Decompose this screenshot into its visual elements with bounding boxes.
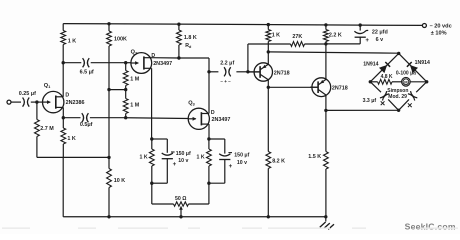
wire rail to R2 100K bbox=[108, 24, 110, 31]
minus mark C4 bbox=[171, 151, 175, 153]
junction ground rail end bbox=[324, 215, 327, 218]
wire midpoint to 1M lower bbox=[125, 90, 127, 99]
junction rail/2.2K bbox=[324, 23, 327, 26]
svg-text:100K: 100K bbox=[114, 37, 127, 43]
svg-text:150 μf: 150 μf bbox=[176, 151, 191, 157]
capacitor C6 150uf bbox=[219, 154, 230, 156]
wire node to 1K bbox=[151, 139, 153, 149]
node Q5 emitter bbox=[324, 109, 327, 112]
svg-text:3.3 μf: 3.3 μf bbox=[363, 98, 377, 104]
wire to Q3 gate (crosses Q2 source) bbox=[126, 117, 189, 120]
wire down to 50ohm line bbox=[208, 183, 210, 204]
wire down to 50ohm line bbox=[151, 183, 153, 204]
svg-text:1 K: 1 K bbox=[68, 39, 76, 45]
node Q1 source junction bbox=[62, 116, 65, 119]
svg-text:1 M: 1 M bbox=[130, 103, 139, 109]
wire 8.2K to ground rail bbox=[267, 169, 269, 217]
x mark bottom-left arm bbox=[381, 101, 385, 105]
wire C4 bottom join bbox=[152, 182, 168, 184]
wire C5 to base node bbox=[236, 71, 248, 73]
wire emitter node to 1.5K bbox=[325, 110, 327, 151]
wire gate node down to R 2.7M bbox=[36, 102, 38, 119]
svg-text:27K: 27K bbox=[292, 34, 302, 40]
resistor 1K (Q4 collector) bbox=[266, 30, 271, 42]
svg-text:SeekIC.com: SeekIC.com bbox=[405, 222, 456, 232]
node 100K to 1M divider link bbox=[107, 88, 110, 91]
wire 27K to 2.2K node bbox=[305, 43, 326, 45]
wire emitter node down to 8.2K bbox=[267, 87, 269, 151]
wire down to C4 bbox=[166, 139, 168, 153]
svg-text:1.5 K: 1.5 K bbox=[308, 154, 321, 160]
wire 1M lower to gate line bbox=[125, 114, 127, 118]
svg-text:Q3: Q3 bbox=[188, 101, 195, 107]
capacitor C5 2.2uf bbox=[224, 67, 226, 76]
node bottom-left bus / 10K bbox=[107, 156, 110, 159]
wire Q4 emitter to Q5 base bbox=[268, 86, 318, 88]
svg-text:10 v: 10 v bbox=[178, 158, 188, 164]
wire rail to C8 bbox=[359, 25, 361, 31]
wire 1K to collector node bbox=[267, 42, 269, 52]
resistor 50 ohm bbox=[174, 202, 189, 206]
wire Q3 source down bbox=[208, 124, 210, 139]
wire node to C5 bbox=[209, 71, 218, 73]
wire base node up to 27K line bbox=[247, 44, 249, 72]
wire C6 bottom join bbox=[209, 182, 225, 184]
transistor Q2 2N3497 FET bbox=[131, 53, 152, 74]
scan artifact dashes (decorative) bbox=[2, 227, 30, 229]
transistor Q1 2N2386 FET bbox=[43, 91, 64, 112]
wire 50ohm to right network bbox=[189, 203, 209, 205]
svg-text:0-100 μa: 0-100 μa bbox=[396, 70, 416, 76]
wire to 27K bbox=[248, 43, 291, 45]
svg-text:1 K: 1 K bbox=[272, 32, 280, 38]
capacitor C1 0.25uf bbox=[23, 98, 25, 107]
svg-text:1.8 K: 1.8 K bbox=[184, 35, 197, 41]
wire down to Q3 drain lead bbox=[208, 72, 210, 114]
wire Q5 emitter to bridge bottom vertex bbox=[326, 109, 399, 111]
wire Q2 source down (crosses gate line) bbox=[151, 68, 153, 139]
resistor 1.8K Rd bbox=[177, 30, 182, 45]
wire bridge arm bottom-right upper segment bbox=[416, 82, 427, 92]
junction 10K/ground rail bbox=[107, 215, 110, 218]
svg-text:D: D bbox=[211, 110, 215, 116]
transistor Q5 2N718 bbox=[312, 78, 331, 97]
svg-text:Q1: Q1 bbox=[44, 83, 51, 89]
node Q3 source network top bbox=[207, 137, 210, 140]
wire left vertex to 4.8K bbox=[370, 81, 377, 83]
resistor 1K (Q3 source) bbox=[207, 149, 212, 166]
wire down to C6 bbox=[224, 139, 226, 154]
svg-text:± 10%: ± 10% bbox=[431, 31, 447, 37]
node network bottom left bbox=[150, 182, 153, 185]
wire link to 1M midpoint bbox=[109, 89, 126, 91]
wire rail to R1 bbox=[62, 24, 64, 31]
svg-text:1 M: 1 M bbox=[130, 77, 139, 83]
input terminal bbox=[7, 100, 11, 104]
capacitor C4 150uf bbox=[162, 153, 173, 155]
capacitor C2 6.5uf bbox=[83, 58, 85, 67]
node Q2 gate bbox=[124, 61, 127, 64]
resistor 1.5K bbox=[324, 152, 329, 170]
node Q1 drain / C2 bbox=[62, 61, 65, 64]
wire corner down to C5 node bbox=[208, 58, 210, 72]
svg-text:1 K: 1 K bbox=[197, 154, 205, 160]
node Q4 emitter / Q5 base bbox=[267, 86, 270, 89]
junction rail/1K bbox=[267, 23, 270, 26]
wire 1M to midpoint bbox=[125, 86, 127, 90]
wire input to C1 bbox=[11, 101, 21, 103]
wire C1 to Q1 gate node bbox=[31, 101, 37, 103]
svg-text:– 20 vdc: – 20 vdc bbox=[430, 23, 452, 29]
output terminal -20Vdc bbox=[422, 24, 426, 28]
wire bridge arm bottom-left upper segment bbox=[370, 82, 381, 92]
meter M 0-100ua bbox=[402, 78, 411, 87]
resistor 2.2K bbox=[324, 30, 329, 42]
svg-text:2N718: 2N718 bbox=[332, 86, 348, 92]
transistor Q3 2N3497 FET bbox=[188, 108, 209, 129]
svg-text:2N718: 2N718 bbox=[274, 70, 290, 76]
wire bridge arm top-right bbox=[399, 53, 427, 81]
svg-text:+: + bbox=[229, 163, 233, 170]
junction rail/100K bbox=[107, 22, 110, 25]
wire C6 to bottom bbox=[224, 160, 226, 184]
capacitor 3.3uf (bottom-left arm) bbox=[380, 91, 387, 98]
wire C3 to 1M node bbox=[90, 117, 126, 119]
node Q2 drain / 1.8K bbox=[177, 56, 180, 59]
wire Q4 emitter down bbox=[267, 80, 269, 88]
wire C8 to 27K node line bbox=[359, 37, 361, 44]
wire base node to Q4 bbox=[248, 71, 260, 73]
svg-text:2.2 μf: 2.2 μf bbox=[220, 60, 234, 66]
wire 2.7M to bottom-left bus bbox=[36, 137, 38, 158]
transistor Q4 2N718 bbox=[254, 63, 272, 81]
junction rail/C8 bbox=[359, 23, 362, 26]
wire to C4 branch bbox=[152, 138, 168, 140]
wire rail to 1.8K bbox=[178, 24, 180, 30]
wire Q2 gate node to 1M upper bbox=[125, 63, 127, 71]
svg-text:6.5 μf: 6.5 μf bbox=[80, 70, 94, 76]
wire C4 to bottom bbox=[166, 159, 168, 184]
wire C2 to Q2 gate node bbox=[91, 62, 126, 64]
wire 100K down long (crosses 62.7 and 117.7 lines) bbox=[108, 46, 110, 157]
wire bridge arm bottom-left lower segment bbox=[388, 99, 398, 110]
node Q3 drain / C5 bbox=[207, 70, 210, 73]
node bridge right vertex bbox=[425, 80, 428, 83]
wire bottom-left bus down to ground rail bbox=[62, 157, 64, 216]
wire 10K to ground rail bbox=[108, 188, 110, 217]
wire drain node to C2 bbox=[63, 62, 81, 64]
resistor 1K (Q1 drain load) bbox=[61, 31, 66, 45]
capacitor C8 22ufd bbox=[354, 30, 368, 33]
wire: top supply rail (-20V bus) bbox=[63, 24, 422, 26]
wire collector node to bridge top (crosses Q5 collector) bbox=[268, 52, 398, 53]
svg-text:1N914: 1N914 bbox=[363, 61, 378, 67]
wire collector node to Q4 bbox=[267, 52, 269, 64]
svg-text:0.25 μf: 0.25 μf bbox=[19, 91, 36, 97]
junction 8.2K/ground rail bbox=[267, 215, 270, 218]
svg-text:2.7 M: 2.7 M bbox=[40, 126, 54, 132]
capacitor (bottom-right arm) bbox=[411, 91, 418, 98]
svg-text:10 K: 10 K bbox=[114, 178, 125, 184]
node 2.2K bottom / Q5 collector bbox=[324, 42, 327, 45]
svg-text:2N3497: 2N3497 bbox=[212, 117, 231, 123]
resistor 100K bbox=[107, 31, 112, 46]
ground symbol bbox=[325, 217, 327, 222]
node Q2 source network top bbox=[150, 137, 153, 140]
minus mark C6 bbox=[228, 152, 232, 154]
svg-text:0.5μf: 0.5μf bbox=[80, 122, 93, 128]
wire Q1 source lead down bbox=[62, 107, 64, 117]
diode D1 1N914 (top-left arm) bbox=[379, 65, 387, 73]
node Q4 collector / bridge feed bbox=[267, 50, 270, 53]
node bridge bottom vertex bbox=[397, 109, 400, 112]
wire 2.2K to node bbox=[325, 42, 327, 44]
svg-text:Mod. 29: Mod. 29 bbox=[388, 94, 407, 100]
wire collector node down to Q5 (crosses bridge feed line) bbox=[325, 44, 327, 80]
wire Q2 drain to 1.8K node bbox=[152, 57, 179, 59]
node bridge left vertex bbox=[369, 80, 372, 83]
wire meter to right vertex bbox=[410, 81, 427, 83]
wire Q1 source to C3 bbox=[63, 117, 80, 119]
resistor 10K bbox=[107, 169, 112, 188]
wire R4 to bottom-left bus bbox=[62, 144, 64, 157]
wire: bottom ground rail bbox=[63, 216, 326, 218]
svg-text:+: + bbox=[365, 37, 369, 44]
svg-text:50 Ω: 50 Ω bbox=[175, 196, 186, 202]
wire bottom-left bus (2.7M/1K bottoms to 10K node) bbox=[37, 156, 109, 158]
wire bridge arm bottom-right lower segment bbox=[399, 99, 409, 110]
junction rail/1.8K bbox=[177, 23, 180, 26]
resistor 1K (Q1 source) bbox=[61, 128, 66, 144]
wire gate node to Q2 bbox=[126, 62, 131, 64]
svg-text:6 v: 6 v bbox=[376, 37, 384, 43]
wire node to 10K bbox=[108, 157, 110, 168]
wire to C6 branch bbox=[209, 138, 225, 140]
svg-text:10 v: 10 v bbox=[237, 160, 247, 166]
svg-text:– + –: – + – bbox=[220, 79, 231, 84]
svg-text:1 K: 1 K bbox=[67, 136, 75, 142]
wire node to C8 bottom bbox=[326, 43, 360, 45]
svg-text:22 μfd: 22 μfd bbox=[372, 30, 388, 36]
wire Q5 emitter down bbox=[325, 95, 327, 110]
resistor 27K bbox=[291, 42, 305, 47]
node 1M midpoint bbox=[124, 88, 127, 91]
node bridge top vertex bbox=[397, 52, 400, 55]
junction tap/ground rail bbox=[179, 215, 182, 218]
wire drain node to Q1 drain lead bbox=[62, 63, 64, 97]
svg-text:8.2 K: 8.2 K bbox=[272, 158, 285, 164]
wire drain node right bbox=[179, 57, 209, 59]
wire node to 1K bbox=[208, 139, 210, 149]
wire 1K to bottom node bbox=[151, 166, 153, 183]
resistor 1M lower bbox=[123, 99, 128, 114]
capacitor C3 0.5uf bbox=[82, 113, 84, 122]
wiper arrow 50 ohm tap bbox=[180, 209, 182, 217]
resistor 4.8K bbox=[378, 79, 392, 84]
diode D2 1N914 (top-right arm) bbox=[410, 65, 418, 73]
wire R1 to drain node bbox=[62, 45, 64, 63]
wire rail to 2.2K bbox=[325, 25, 327, 30]
resistor 8.2K bbox=[266, 152, 271, 169]
node 1M bottom / Q3 gate line bbox=[124, 116, 127, 119]
wire 4.8K to meter bbox=[392, 81, 402, 83]
wire 1.8K to drain line bbox=[178, 45, 180, 58]
wire source node to R4 bbox=[62, 118, 64, 128]
svg-text:1 K: 1 K bbox=[140, 154, 148, 160]
svg-text:4.8 K: 4.8 K bbox=[381, 74, 393, 80]
x mark bottom-right arm bbox=[408, 103, 412, 107]
svg-text:D: D bbox=[65, 93, 69, 99]
wire bridge arm top-left bbox=[370, 53, 398, 81]
svg-text:2N2386: 2N2386 bbox=[66, 100, 85, 106]
node Q4 base bbox=[246, 70, 249, 73]
svg-text:2.2 K: 2.2 K bbox=[329, 32, 342, 38]
node network bottom right bbox=[207, 182, 210, 185]
resistor 1M upper bbox=[123, 71, 128, 86]
resistor 2.7M bbox=[35, 120, 40, 137]
node Q1 gate junction bbox=[35, 100, 38, 103]
svg-text:150 μf: 150 μf bbox=[234, 153, 249, 159]
svg-text:+: + bbox=[173, 161, 177, 168]
wire 1K to bottom node bbox=[208, 166, 210, 183]
svg-text:1N914: 1N914 bbox=[415, 60, 430, 66]
wire to 50ohm bbox=[152, 203, 174, 205]
resistor 1K (Q2 source) bbox=[149, 149, 154, 166]
wire rail to 1K bbox=[267, 25, 269, 30]
wire 1.5K to ground rail bbox=[325, 169, 327, 217]
svg-text:2N3497: 2N3497 bbox=[153, 61, 172, 67]
